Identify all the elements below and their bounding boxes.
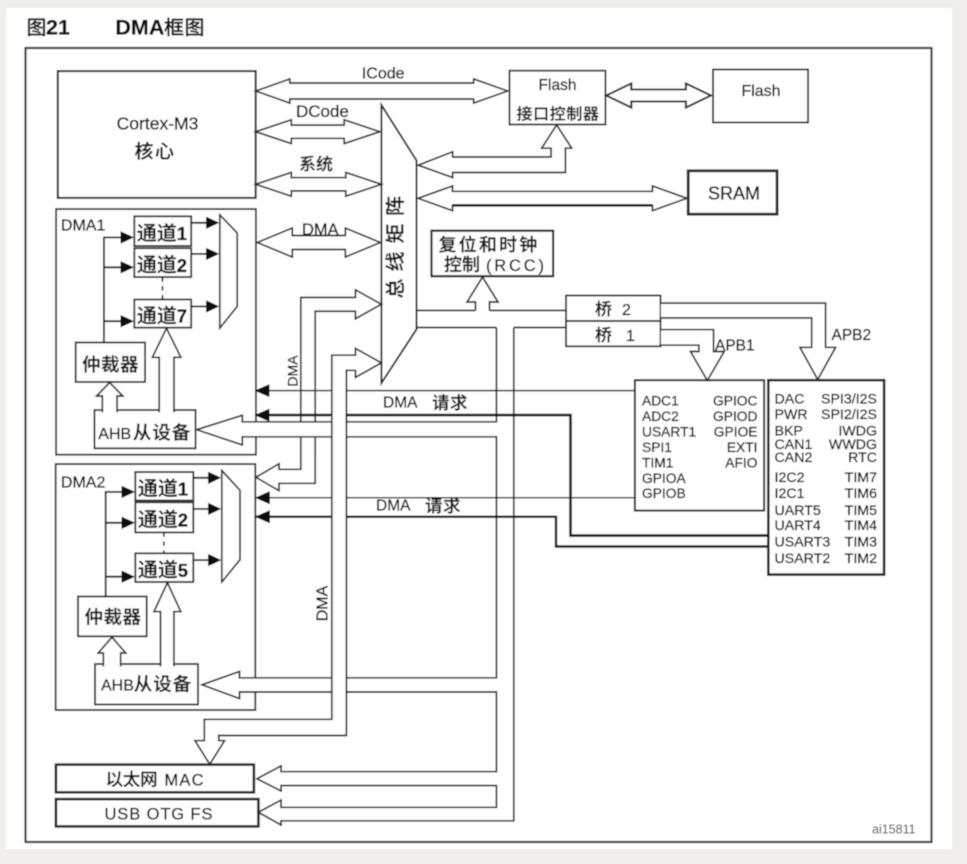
svg-text:TIM7: TIM7 [845, 470, 877, 486]
svg-text:GPIOD: GPIOD [713, 409, 757, 424]
DMA1 dashed line channels 2..7 [162, 277, 164, 299]
pipe: bridge2 to APB2 peripherals (arrow down) [661, 303, 836, 379]
label 复位和时钟 [439, 236, 456, 253]
svg-text:TIM3: TIM3 [845, 535, 877, 551]
svg-text:DCode: DCode [296, 102, 349, 121]
svg-text:Cortex-M3: Cortex-M3 [117, 113, 199, 133]
pipe: bridge1 to APB1 peripherals (arrow down) [661, 330, 724, 381]
DMA1 channel feed trunk [104, 237, 121, 342]
arrow AHB slave to arbiter (DMA2) [98, 637, 126, 666]
svg-text:1: 1 [177, 223, 187, 244]
CPU box Cortex-M3 [58, 71, 256, 198]
svg-text:DMA: DMA [376, 498, 411, 515]
System bus double arrow [256, 172, 382, 196]
svg-text:GPIOB: GPIOB [642, 486, 686, 501]
label 接口控制器 [517, 106, 532, 121]
DMA2 channel2 box [135, 502, 193, 532]
svg-text:AHB: AHB [98, 426, 131, 443]
label 以太网 MAC [107, 771, 123, 787]
svg-text:DMA: DMA [315, 585, 332, 621]
label 通道1 (DMA2) [138, 479, 157, 497]
svg-text:SPI3/I2S: SPI3/I2S [821, 392, 877, 408]
svg-text:(RCC): (RCC) [486, 257, 544, 275]
DMA2 channel5 box [135, 553, 193, 582]
svg-text:TIM1: TIM1 [642, 455, 673, 470]
svg-text:DAC: DAC [775, 392, 805, 408]
label 通道1 (DMA1) [137, 224, 156, 242]
svg-text:EXTI: EXTI [727, 440, 758, 455]
svg-text:5: 5 [178, 560, 188, 581]
svg-text:AHB: AHB [101, 678, 134, 695]
label 桥 2 [595, 301, 611, 317]
label 总线矩阵 (rotated) [385, 197, 404, 215]
DMA2 AHB slave box [95, 664, 198, 705]
Ethernet MAC box [56, 765, 254, 793]
svg-text:SRAM: SRAM [708, 184, 760, 204]
svg-text:USB OTG FS: USB OTG FS [105, 806, 213, 824]
svg-text:ICode: ICode [362, 66, 405, 83]
svg-text:ADC1: ADC1 [642, 394, 679, 409]
svg-text:GPIOC: GPIOC [713, 394, 757, 409]
label 通道2 (DMA2) [138, 510, 157, 528]
DMA2 arbiter box [78, 597, 147, 637]
svg-text:I2C2: I2C2 [775, 470, 805, 486]
DMA1 channel2 box [134, 248, 191, 277]
label 仲裁器 (DMA2) [85, 608, 102, 625]
DCode bus double arrow [256, 120, 380, 144]
bus matrix to SRAM double arrow [418, 186, 687, 211]
svg-text:I2C1: I2C1 [775, 486, 805, 502]
RCC box [432, 231, 554, 277]
svg-text:UART5: UART5 [775, 503, 821, 519]
svg-text:2: 2 [177, 255, 187, 276]
svg-text:MAC: MAC [165, 772, 204, 790]
DMA2 request line upper (to APB1 box) [255, 497, 635, 499]
svg-text:TIM5: TIM5 [845, 503, 877, 519]
DMA1 arbiter box [76, 343, 145, 382]
DMA1 channel mux [220, 215, 237, 328]
svg-text:Flash: Flash [539, 77, 577, 94]
pipe: bus matrix to flash interface (arrow up into Flash I/F, arrow left into matrix) [418, 125, 572, 178]
pipe: Ethernet MAC DMA to bus matrix (arrow right into matrix, arrow down into MAC) [195, 348, 381, 764]
label 系统 [300, 156, 315, 172]
svg-text:APB2: APB2 [832, 327, 872, 344]
svg-text:ai15811: ai15811 [872, 823, 916, 837]
DMA1 request line upper (to APB1 box) [255, 390, 635, 392]
APB2 peripherals box [768, 380, 884, 574]
svg-text:TIM4: TIM4 [845, 518, 877, 534]
svg-text:RTC: RTC [848, 450, 877, 466]
label 仲裁器 (DMA1) [82, 355, 99, 372]
svg-text:AFIO: AFIO [725, 455, 757, 470]
svg-text:DMA: DMA [302, 221, 339, 239]
SRAM arrow lower shaft (dark) [453, 204, 653, 207]
arrow AHB slave to channel7 (DMA1) [152, 328, 180, 412]
svg-text:GPIOE: GPIOE [714, 424, 758, 439]
label 通道7 (DMA1) [137, 306, 156, 324]
svg-text:USART1: USART1 [642, 424, 696, 439]
label 通道2 (DMA1) [137, 255, 156, 273]
svg-text:PWR: PWR [775, 407, 808, 423]
svg-text:1: 1 [626, 328, 635, 345]
arrow AHB slave to arbiter (DMA1) [97, 383, 123, 413]
svg-text:1: 1 [178, 478, 188, 499]
svg-text:DMA2: DMA2 [61, 475, 106, 492]
DMA2 channel feed trunk [106, 492, 122, 597]
arrows into DMA1 channels [121, 231, 135, 243]
DMA2 channel1 box [135, 472, 193, 500]
DMA2 dashed line channels 2..5 [163, 532, 165, 553]
label 核心 [135, 142, 153, 160]
label 通道5 (DMA2) [138, 561, 157, 579]
DMA2 channel output arrows to mux [193, 478, 208, 560]
svg-text:21: 21 [46, 16, 70, 40]
Flash controller to Flash double arrow [606, 84, 711, 108]
arrow up into RCC [467, 277, 498, 310]
svg-text:USART2: USART2 [775, 551, 831, 567]
DMA1 channel1 box [134, 216, 191, 246]
DMA1 master bus double arrow [257, 228, 380, 257]
DMA2 box [56, 464, 256, 710]
DMA2 channel mux [222, 471, 240, 583]
USB OTG FS box [56, 799, 259, 826]
SRAM box [688, 171, 777, 214]
bus matrix [381, 105, 416, 383]
svg-text:SPI2/I2S: SPI2/I2S [821, 407, 877, 423]
DMA1 channel output arrows to mux [191, 223, 206, 307]
svg-text:Flash: Flash [741, 83, 780, 100]
arrows into DMA2 channels [122, 486, 136, 498]
svg-text:DMA: DMA [285, 355, 301, 387]
wire: bus matrix to bridges (upper line) [417, 309, 568, 311]
bridge 2 box [566, 296, 661, 322]
svg-text:DMA: DMA [383, 395, 418, 412]
title 图21 DMA框图 [28, 18, 45, 36]
svg-text:TIM6: TIM6 [845, 486, 877, 502]
Flash interface controller box [510, 71, 606, 125]
svg-text:USART3: USART3 [775, 535, 831, 551]
svg-text:APB1: APB1 [715, 338, 755, 355]
svg-text:DMA1: DMA1 [61, 217, 106, 234]
ICode bus double arrow [256, 79, 508, 103]
arrow AHB slave to channel5 (DMA2) [154, 583, 181, 667]
label 控制 (RCC) [445, 256, 462, 273]
pipe tree: system bus to DMA1 AHB slave, DMA2 AHB slave, Ethernet MAC, USB OTG FS [197, 328, 514, 826]
DMA1 box [56, 209, 256, 455]
svg-text:2: 2 [178, 510, 188, 531]
wire: bus matrix to bridges (lower line) [416, 327, 567, 329]
APB1 peripherals box [635, 380, 764, 510]
DMA1 request line lower (to APB2 box) [255, 415, 768, 535]
svg-text:7: 7 [177, 306, 187, 327]
svg-text:DMA: DMA [115, 16, 164, 40]
svg-text:2: 2 [622, 302, 631, 319]
DMA2 request line lower (to APB2 box) [255, 517, 768, 547]
pipe: DMA2 master to bus matrix (arrow right into matrix, arrow left into DMA2) [256, 290, 381, 491]
DMA1 AHB slave box [94, 410, 195, 448]
svg-text:GPIOA: GPIOA [642, 471, 686, 486]
bridge 1 box [566, 321, 661, 346]
Flash box [713, 70, 808, 123]
svg-text:ADC2: ADC2 [642, 409, 679, 424]
svg-text:CAN2: CAN2 [775, 450, 813, 466]
svg-text:UART4: UART4 [775, 518, 821, 534]
svg-text:TIM2: TIM2 [845, 551, 877, 567]
svg-text:SPI1: SPI1 [642, 440, 672, 455]
label 桥 1 [595, 327, 611, 343]
DMA1 channel7 box [134, 300, 191, 328]
